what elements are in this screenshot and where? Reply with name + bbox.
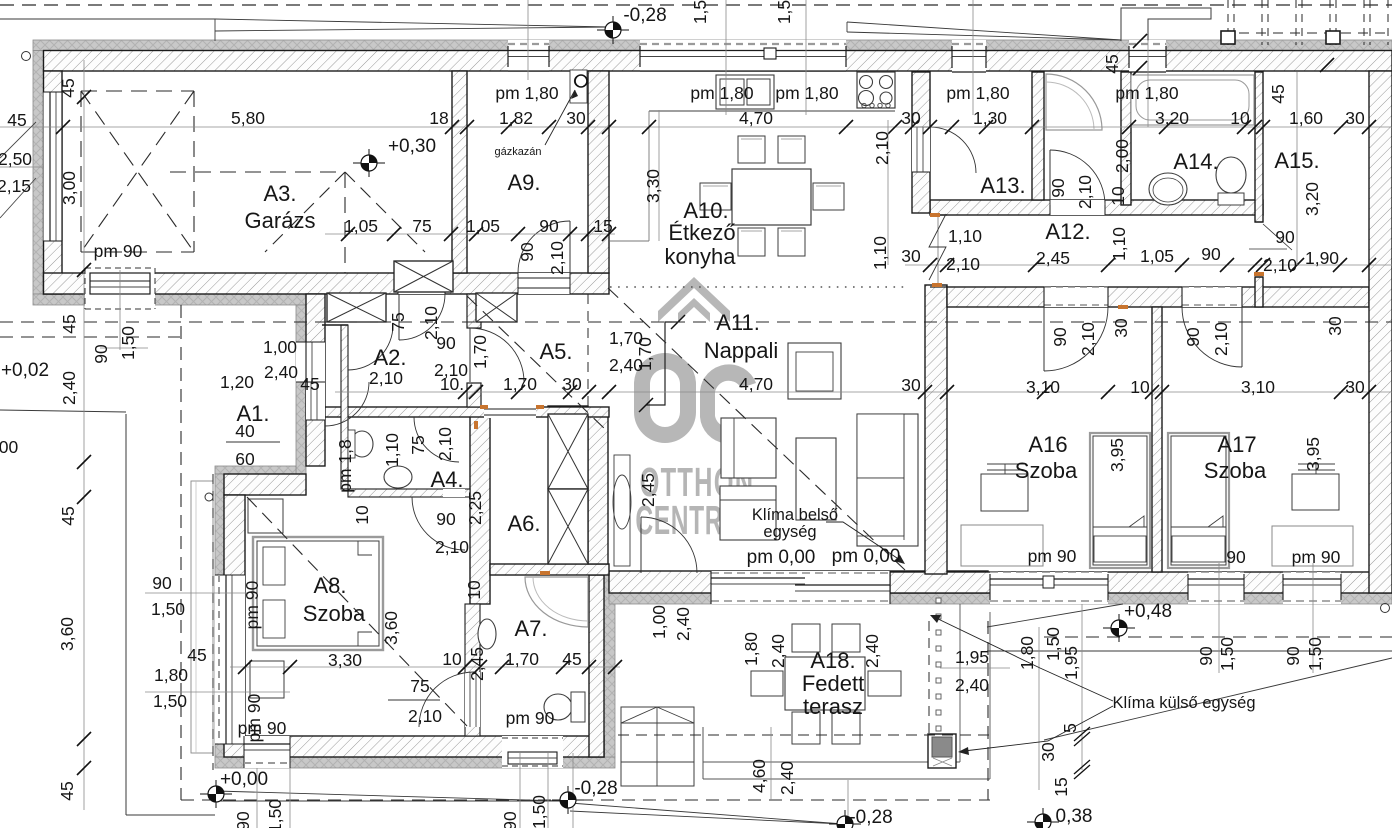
svg-text:90: 90 (1283, 646, 1303, 666)
dashed boundary A5-living (587, 294, 589, 407)
svg-text:Szoba: Szoba (1204, 458, 1267, 483)
svg-text:2,10: 2,10 (408, 706, 442, 726)
elevation marker +0,00 (200, 793, 232, 795)
wall exterior insulation A8 west (215, 474, 224, 757)
door arc A4 (414, 417, 459, 462)
svg-text:5: 5 (1060, 723, 1080, 733)
wall A9 east (588, 71, 609, 273)
wardrobe A6 lower (548, 489, 588, 564)
svg-text:2,40: 2,40 (955, 675, 989, 695)
eave wedge bottom left (216, 791, 562, 801)
kitchen counter (649, 110, 895, 112)
wall exterior insulation A7 east (604, 575, 615, 757)
wall A1 south line (322, 324, 348, 326)
desk A16 (981, 474, 1028, 511)
svg-text:-0,28: -0,28 (623, 5, 666, 26)
svg-text:3,95: 3,95 (1303, 437, 1323, 471)
svg-text:30: 30 (901, 108, 921, 128)
window porch west (296, 342, 325, 382)
svg-text:Garázs: Garázs (245, 208, 316, 233)
svg-text:A14.: A14. (1173, 149, 1218, 174)
door arc A17 (1182, 307, 1242, 367)
wall A2 south (solid) (325, 407, 609, 417)
couch A11 (857, 414, 918, 546)
svg-text:10: 10 (464, 580, 484, 600)
door arc A16 (1044, 307, 1108, 371)
svg-text:konyha: konyha (665, 244, 737, 269)
wall exterior insulation A8-A7 south (215, 757, 615, 768)
svg-text:75: 75 (410, 676, 429, 696)
radiator A6 east (614, 455, 630, 566)
svg-text:1,95: 1,95 (955, 647, 989, 667)
witness line kitchen height (658, 110, 660, 241)
kitchen stove (857, 72, 895, 108)
svg-text:40: 40 (235, 421, 255, 441)
svg-text:+0,30: +0,30 (388, 136, 436, 157)
svg-text:3,00: 3,00 (59, 171, 79, 205)
svg-text:45: 45 (57, 781, 77, 800)
svg-text:10: 10 (1230, 108, 1250, 128)
wall A1-A2 partition (341, 325, 348, 489)
window A16 south-west (990, 572, 1108, 604)
wall exterior insulation porch west (296, 305, 306, 474)
door A8 gap (443, 489, 465, 497)
svg-text:30: 30 (1345, 377, 1365, 397)
boundary line west (125, 414, 127, 815)
svg-text:+0,00: +0,00 (220, 769, 268, 790)
dim chain garage south (325, 233, 615, 235)
svg-text:10: 10 (352, 505, 372, 525)
svg-text:A7.: A7. (514, 616, 547, 641)
wall A7-A8 partition (465, 604, 480, 736)
svg-text:pm 0,00: pm 0,00 (747, 547, 816, 568)
window living terrace sliding (711, 571, 890, 604)
sofa modules A11 (721, 418, 776, 478)
roof overhang dashed terrace east (987, 621, 989, 800)
toilet A4 (351, 431, 373, 457)
eave wedge bottom mid (570, 803, 843, 824)
wardrobe A6 upper (548, 414, 588, 489)
hip dashed through A5 (467, 296, 608, 432)
svg-text:1,05: 1,05 (344, 216, 378, 236)
witness 2,10 kitchen (887, 120, 889, 265)
svg-text:90: 90 (500, 811, 520, 828)
svg-text:45: 45 (1268, 84, 1288, 103)
svg-text:3,30: 3,30 (328, 650, 362, 670)
svg-text:2,40: 2,40 (59, 371, 79, 405)
basin A7 (478, 619, 496, 649)
svg-text:Fedett: Fedett (802, 671, 864, 696)
basin A4 (384, 466, 412, 488)
svg-text:2,10: 2,10 (1211, 322, 1231, 356)
cabinet A16 (961, 525, 1043, 566)
dim line 2,50 left (0, 166, 44, 168)
wall garage-A9 (452, 71, 467, 273)
door A17 (1182, 287, 1242, 307)
dim chain A8 (230, 666, 620, 668)
svg-text:3,60: 3,60 (57, 617, 77, 651)
svg-text:90: 90 (1048, 178, 1068, 198)
window garage south pm 90 (85, 268, 155, 310)
svg-text:A16: A16 (1028, 432, 1067, 457)
svg-text:A6.: A6. (507, 511, 540, 536)
hip dashed through living (608, 288, 905, 570)
window A13 north (952, 40, 986, 72)
wall A16-A17 (1152, 307, 1162, 572)
svg-text:60: 60 (235, 449, 255, 469)
small circle outside left (22, 52, 31, 61)
svg-text:2,40: 2,40 (768, 634, 788, 668)
svg-text:3,20: 3,20 (1302, 182, 1322, 216)
garage window witness (119, 270, 121, 350)
wall corridor south (947, 287, 1369, 307)
terrace table A18 (785, 657, 865, 710)
leader klima kulso 2 (964, 706, 1113, 751)
cabinet A17 (1272, 526, 1353, 566)
svg-text:Nappali: Nappali (704, 338, 779, 363)
svg-text:-0,28: -0,28 (574, 778, 617, 799)
svg-text:45: 45 (562, 649, 581, 669)
svg-text:45: 45 (1102, 54, 1122, 73)
svg-text:pm 1,80: pm 1,80 (946, 83, 1009, 103)
svg-text:2,10: 2,10 (369, 368, 403, 388)
dresser A8 bottom (250, 661, 284, 698)
svg-text:A8.: A8. (313, 573, 346, 598)
door A9 (518, 273, 570, 294)
svg-text:1,00: 1,00 (649, 605, 669, 639)
svg-text:90: 90 (1050, 327, 1070, 347)
svg-text:3,95: 3,95 (1107, 438, 1127, 472)
svg-text:45: 45 (59, 314, 79, 333)
svg-text:90: 90 (91, 344, 111, 364)
wall A2-A5 upper chunk (467, 294, 481, 328)
left margin diagonals (0, 122, 36, 158)
svg-text:1,50: 1,50 (529, 795, 549, 828)
svg-text:2,45: 2,45 (638, 473, 658, 507)
svg-text:10: 10 (1108, 186, 1128, 206)
svg-text:90: 90 (1183, 327, 1203, 347)
wall right exterior (1369, 71, 1392, 593)
svg-text:30: 30 (1111, 318, 1131, 338)
svg-text:pm 1,80: pm 1,80 (775, 83, 838, 103)
svg-text:2,10: 2,10 (435, 427, 455, 461)
svg-text:90: 90 (436, 509, 456, 529)
svg-text:1,70: 1,70 (470, 335, 490, 369)
door A16 (1044, 287, 1108, 307)
window A8 west (215, 575, 245, 744)
svg-text:90: 90 (1196, 646, 1216, 666)
boiler A9 (570, 70, 587, 103)
wall core garage south (44, 273, 610, 294)
bed A8 (253, 537, 383, 650)
door arc A2 (348, 325, 393, 370)
svg-text:90: 90 (233, 811, 253, 828)
garage X diagonals (81, 91, 194, 252)
shutter box outside A8 (191, 481, 213, 753)
svg-text:pm 90: pm 90 (1028, 546, 1077, 566)
svg-text:1,30: 1,30 (973, 108, 1007, 128)
window A16 south-east (1188, 572, 1244, 604)
svg-text:2,15: 2,15 (0, 176, 31, 196)
svg-text:45: 45 (7, 110, 26, 130)
wall A14-A15 upper (1255, 72, 1263, 222)
window A14 north (1129, 40, 1166, 72)
svg-text:1,80: 1,80 (1017, 636, 1037, 670)
wall exterior insulation living-bedrooms south (609, 593, 1392, 604)
wall A6 south (490, 564, 609, 575)
svg-text:pm 90: pm 90 (506, 708, 555, 728)
svg-text:2,10: 2,10 (872, 131, 892, 165)
svg-text:90: 90 (539, 216, 559, 236)
wall A13-A14 (1032, 72, 1044, 200)
svg-text:2,00: 2,00 (1112, 139, 1132, 173)
svg-text:gázkazán: gázkazán (494, 146, 541, 158)
witness A15 (1147, 40, 1149, 127)
svg-text:1,50: 1,50 (151, 599, 185, 619)
leader klima belso (826, 522, 903, 562)
svg-text:3,30: 3,30 (643, 169, 663, 203)
svg-text:+0,02: +0,02 (1, 360, 49, 381)
svg-text:1,50: 1,50 (153, 691, 187, 711)
door arc A7 (419, 672, 474, 727)
svg-text:pm 90: pm 90 (242, 580, 262, 629)
wall A6 north stub (548, 406, 588, 414)
armchair A11 (788, 343, 841, 399)
kitchen sink (716, 75, 774, 109)
svg-text:A3.: A3. (263, 181, 296, 206)
svg-text:pm 1,8: pm 1,8 (335, 439, 355, 493)
wall A6 west (470, 414, 490, 604)
door A1 entry (306, 382, 325, 420)
wall A2-A5 lower chunk (467, 383, 481, 407)
dim chain hall (335, 391, 1392, 393)
svg-text:1,05: 1,05 (1140, 246, 1174, 266)
wall exterior insulation left (33, 51, 44, 295)
svg-text:pm 1,80: pm 1,80 (690, 83, 753, 103)
wall exterior insulation garage south (33, 294, 306, 305)
witness bottom right chains (1218, 563, 1220, 673)
wall exterior insulation top (33, 40, 1392, 51)
door arc garage-A2 (399, 294, 445, 340)
svg-text:Szoba: Szoba (1015, 458, 1078, 483)
svg-text:Klíma belső: Klíma belső (752, 506, 838, 524)
svg-text:30: 30 (562, 374, 582, 394)
svg-text:A13.: A13. (980, 173, 1025, 198)
svg-text:10: 10 (1130, 377, 1150, 397)
terrace chairs (792, 624, 820, 652)
terrace strip verticals (959, 604, 961, 762)
svg-text:Étkező: Étkező (668, 220, 735, 245)
wall living south core (609, 571, 988, 593)
svg-text:1,80: 1,80 (154, 665, 188, 685)
svg-text:pm 1,80: pm 1,80 (1115, 83, 1178, 103)
window A8 south (244, 736, 290, 768)
svg-text:30: 30 (1325, 316, 1345, 336)
eave line top left (0, 18, 215, 20)
wall bedroom-block west (925, 285, 947, 574)
garage parking dashed rect (81, 90, 194, 92)
svg-text:90: 90 (1275, 227, 1295, 247)
door A15 (1255, 221, 1263, 223)
svg-text:1,50: 1,50 (1217, 637, 1237, 671)
svg-text:30: 30 (901, 375, 921, 395)
svg-text:3,10: 3,10 (1241, 377, 1275, 397)
leader A15 door (1263, 224, 1292, 250)
svg-text:pm 1,80: pm 1,80 (495, 83, 558, 103)
wall bathrooms south (930, 200, 1263, 215)
svg-text:2,10: 2,10 (421, 306, 441, 340)
coffee table A11 (796, 438, 836, 520)
bed A16 (1090, 433, 1150, 568)
wall kitchen-A13 (912, 72, 930, 213)
svg-text:1,10: 1,10 (382, 433, 402, 467)
dotted open-plan boundary (610, 286, 905, 288)
door arc A9 (518, 221, 570, 273)
svg-text:3,20: 3,20 (1155, 108, 1189, 128)
shower A7 (525, 577, 588, 627)
door arc A1 (325, 382, 369, 426)
dim line A8 west (145, 592, 248, 594)
svg-text:pm 0,00: pm 0,00 (832, 546, 901, 567)
svg-text:30: 30 (566, 108, 586, 128)
door arc living (641, 517, 697, 573)
svg-text:0,38: 0,38 (1056, 806, 1093, 827)
svg-text:10: 10 (442, 649, 462, 669)
svg-text:2,50: 2,50 (0, 149, 32, 169)
leader gazkazan (545, 90, 575, 145)
door arc A13 (930, 127, 976, 173)
svg-text:1,20: 1,20 (220, 372, 254, 392)
svg-text:1,05: 1,05 (466, 216, 500, 236)
door arc A5 (470, 328, 524, 382)
svg-text:15: 15 (593, 216, 612, 236)
svg-text:A5.: A5. (539, 339, 572, 364)
svg-text:A11.: A11. (716, 310, 760, 335)
wall porch west core (306, 294, 325, 466)
svg-text:A15.: A15. (1274, 148, 1319, 173)
svg-text:2,40: 2,40 (264, 362, 298, 382)
svg-text:2,45: 2,45 (1036, 248, 1070, 268)
elevation marker eave -0,28 (597, 29, 629, 31)
svg-text:A2.: A2. (373, 345, 406, 370)
dim chain corridor (905, 264, 1392, 266)
svg-text:90: 90 (1226, 547, 1246, 567)
door A13 (912, 127, 930, 172)
rafter dashed pairs top right (1227, 0, 1229, 45)
pillar A5 west (476, 293, 517, 322)
svg-text:1,10: 1,10 (1109, 227, 1129, 261)
svg-text:egység: egység (763, 523, 816, 541)
bed A17 (1168, 433, 1229, 568)
svg-text:90: 90 (517, 242, 537, 262)
svg-text:90: 90 (152, 573, 172, 593)
svg-text:Klíma külső egység: Klíma külső egység (1112, 694, 1255, 712)
svg-text:30: 30 (1345, 108, 1365, 128)
svg-text:30: 30 (901, 246, 921, 266)
svg-text:1,90: 1,90 (1305, 248, 1339, 268)
elevation marker -0,28 west (552, 799, 584, 801)
eave rect top right (1121, 8, 1211, 41)
window A17 south (1283, 572, 1341, 604)
elevation marker -0,28 terrace (829, 823, 861, 825)
wall exterior insulation A8 north (215, 466, 296, 474)
svg-text:2,10: 2,10 (946, 254, 980, 274)
rafter squares (1221, 31, 1235, 44)
svg-text:75: 75 (412, 216, 431, 236)
svg-text:45: 45 (58, 78, 78, 97)
svg-text:-0,28: -0,28 (849, 807, 892, 828)
eave line bottom right (987, 650, 1392, 652)
wall core left exterior (44, 71, 63, 294)
svg-text:1,50: 1,50 (265, 799, 285, 828)
elevation marker +0,48 (1103, 627, 1135, 629)
eave wedge 2 (847, 22, 1121, 40)
wall A4 south thin (348, 489, 470, 497)
wall A8 west core (224, 495, 245, 736)
roof dashed left of porch (0, 336, 180, 338)
dashed terrace north (618, 734, 990, 736)
wall shower-A14 thin (1121, 72, 1131, 205)
witness line far left (83, 60, 85, 810)
leader klima kulso 1 (934, 617, 1113, 701)
witness terrace dims (940, 667, 1010, 669)
svg-text:30: 30 (1038, 742, 1058, 762)
gutter dots (936, 598, 941, 603)
wall A6 east (588, 414, 608, 564)
dashed klima column (928, 621, 930, 734)
svg-text:pm 90: pm 90 (94, 241, 143, 261)
svg-text:1,80: 1,80 (741, 632, 761, 666)
eave wedge 1 (215, 19, 610, 27)
svg-text:4,60: 4,60 (749, 759, 769, 793)
door A12 shower room (1050, 200, 1105, 215)
dashed top right strip (1222, 32, 1392, 34)
svg-text:1,10: 1,10 (948, 226, 982, 246)
pillar A2 west (327, 293, 386, 322)
elevation marker garage +0,30 (353, 162, 385, 164)
toilet A7 (544, 694, 572, 720)
svg-text:75: 75 (408, 435, 428, 454)
svg-text:1,82: 1,82 (499, 108, 533, 128)
dashed line bottom right (1044, 636, 1392, 638)
svg-text:45: 45 (58, 506, 78, 525)
dim chain top (0, 126, 1392, 128)
svg-text:45: 45 (300, 374, 319, 394)
svg-text:1,70: 1,70 (505, 649, 539, 669)
svg-text:Szoba: Szoba (303, 601, 366, 626)
svg-text:A18.: A18. (810, 648, 855, 673)
watermark Otthon Centrum logo (634, 277, 756, 444)
svg-text:1,60: 1,60 (1289, 108, 1323, 128)
svg-text:1,5: 1,5 (690, 0, 710, 24)
window kitchen north (640, 40, 846, 71)
svg-text:18: 18 (429, 108, 448, 128)
wall A8 north core (224, 474, 306, 495)
svg-text:45: 45 (187, 645, 206, 665)
eave diag bottom right (1044, 658, 1392, 740)
wall bedrooms south core (890, 572, 1392, 593)
svg-text:1,5: 1,5 (774, 0, 794, 24)
svg-text:A4.: A4. (430, 467, 463, 492)
terrace steps (621, 707, 694, 786)
eave diag to terrace (987, 604, 1123, 627)
svg-text:2,40: 2,40 (777, 761, 797, 795)
hip dashed through A8 (247, 497, 467, 726)
svg-text:3,10: 3,10 (1026, 377, 1060, 397)
bidet A14 (1149, 173, 1187, 205)
terrace slab edge lines (703, 761, 960, 763)
svg-text:10.: 10. (440, 374, 464, 394)
